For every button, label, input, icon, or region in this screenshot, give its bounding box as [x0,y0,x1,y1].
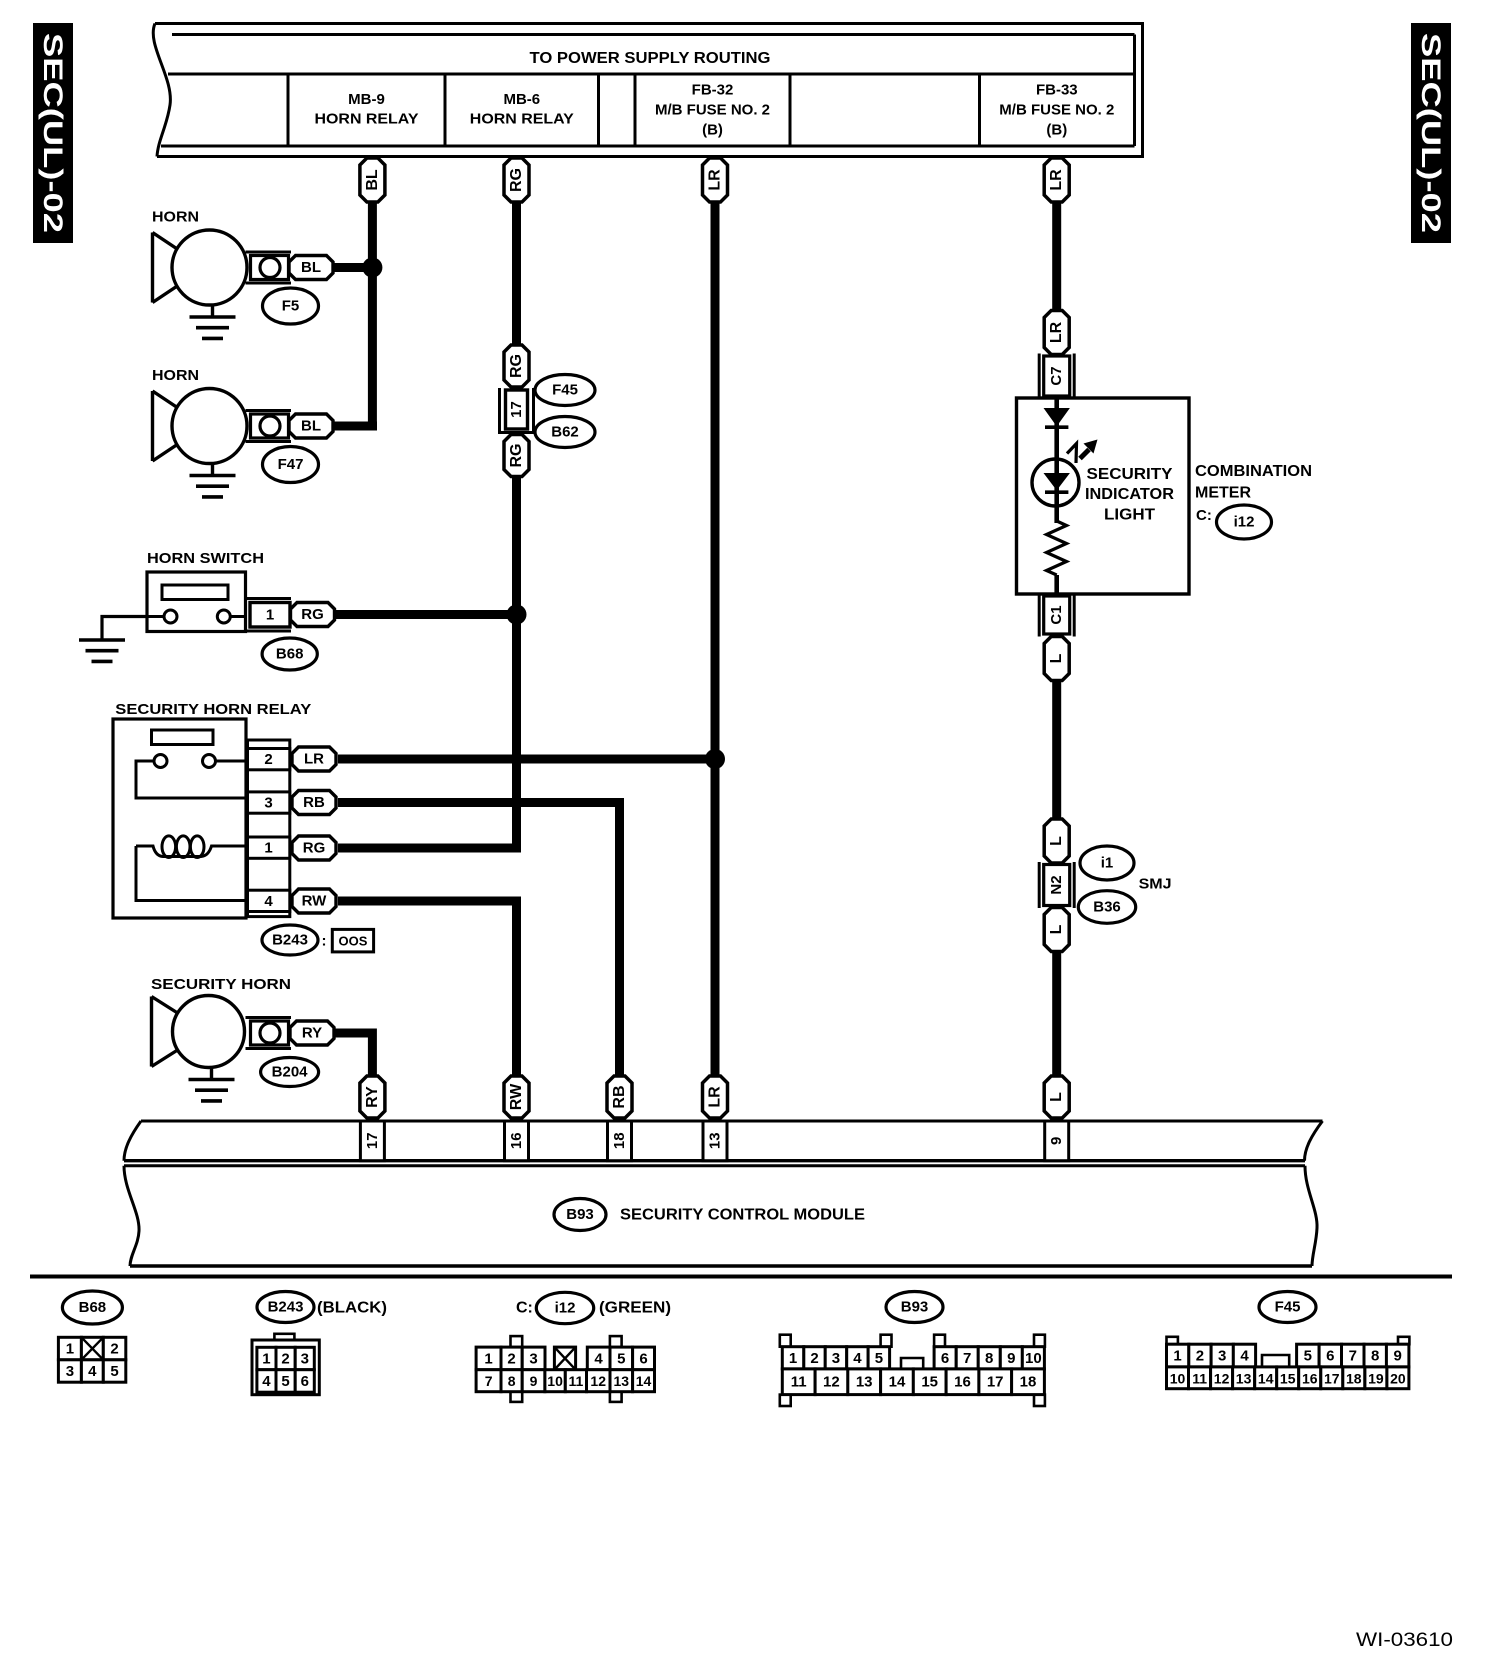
svg-text:4: 4 [853,1350,862,1367]
svg-text:17: 17 [987,1374,1004,1391]
svg-text:15: 15 [1280,1370,1296,1386]
tag RB at relay pin 3 [292,791,336,815]
svg-text:18: 18 [611,1132,628,1149]
security control module outline [124,1121,1323,1266]
svg-text:7: 7 [1349,1348,1357,1365]
module pin 9 [1045,1121,1069,1161]
svg-text:LR: LR [1048,169,1065,191]
svg-text:2: 2 [110,1341,118,1358]
svg-text:MB-6: MB-6 [503,91,540,108]
svg-text:C7: C7 [1048,366,1065,385]
wire BL horn2 to vertical [332,422,377,431]
label COMBINATION METER [1195,463,1312,502]
svg-text:RG: RG [303,840,326,857]
svg-text:8: 8 [508,1373,516,1389]
label SMJ [1139,876,1172,893]
svg-text:(GREEN): (GREEN) [599,1300,671,1317]
connector C1 [1039,594,1074,637]
svg-text:9: 9 [530,1373,538,1389]
horn lower symbol [153,389,248,497]
svg-text:4: 4 [1240,1348,1249,1365]
drawing number WI-03610 [1356,1630,1453,1651]
connector label F5 [263,288,319,324]
svg-text:9: 9 [1007,1350,1015,1367]
module pin 18 [608,1121,632,1161]
node LR junction [705,749,725,769]
connector label F47 [263,447,319,483]
svg-text:COMBINATION: COMBINATION [1195,463,1312,480]
svg-text:INDICATOR: INDICATOR [1085,486,1174,503]
svg-text:17: 17 [1324,1370,1340,1386]
svg-text:i12: i12 [555,1300,576,1317]
svg-text:SECURITY HORN RELAY: SECURITY HORN RELAY [115,701,311,718]
svg-text:L: L [1048,924,1065,934]
svg-text:LR: LR [707,1086,724,1108]
svg-text:HORN RELAY: HORN RELAY [470,111,574,128]
svg-text:M/B FUSE NO. 2: M/B FUSE NO. 2 [999,102,1114,119]
svg-text:LR: LR [304,751,324,768]
wire RW relay pin 4 to module pin 16 [338,901,517,1078]
svg-text:SEC(UL)-02: SEC(UL)-02 [38,33,68,233]
svg-text:7: 7 [963,1350,971,1367]
svg-text:B68: B68 [276,646,304,663]
svg-text:3: 3 [264,795,272,812]
wire L vertical (combination meter to L tag) [1052,678,1061,822]
module label B93 [554,1199,606,1231]
svg-text:i12: i12 [1234,514,1255,531]
connector B68 pinout grid [58,1337,125,1382]
svg-text:10: 10 [1170,1370,1186,1386]
svg-text:3: 3 [66,1363,74,1380]
svg-text:RY: RY [302,1025,322,1042]
connector B93 pinout grid [780,1335,1045,1406]
connector F45 pinout grid [1167,1337,1410,1389]
connector label B36 [1078,891,1135,924]
svg-text:F47: F47 [278,456,304,473]
svg-text:B62: B62 [551,424,579,441]
svg-text:4: 4 [262,1373,271,1390]
svg-text:13: 13 [614,1373,630,1389]
connector B243 pinout grid [252,1334,319,1395]
svg-text:13: 13 [707,1132,724,1149]
tag RY above module pin 17 [360,1076,385,1118]
tag BL at horn upper [289,256,333,280]
svg-text:18: 18 [1346,1370,1362,1386]
tag L above module pin 9 [1044,1076,1069,1118]
svg-text:4: 4 [264,893,273,910]
svg-text:2: 2 [1196,1348,1204,1365]
svg-text:14: 14 [889,1374,906,1391]
svg-text:17: 17 [364,1132,381,1149]
svg-text:SMJ: SMJ [1139,876,1172,893]
svg-text:BL: BL [364,169,381,191]
tag RW above module pin 16 [504,1076,529,1118]
horn upper symbol [153,230,248,338]
svg-text:16: 16 [1302,1370,1318,1386]
label SECURITY CONTROL MODULE [620,1207,865,1224]
tag RB above module pin 18 [607,1076,632,1118]
svg-text:B243: B243 [272,932,308,949]
svg-text:SECURITY HORN: SECURITY HORN [151,976,291,993]
svg-text:3: 3 [832,1350,840,1367]
svg-text:SEC(UL)-02: SEC(UL)-02 [1416,33,1446,233]
svg-text:HORN: HORN [152,209,199,226]
horn switch ground lead [79,617,147,662]
svg-text:5: 5 [875,1350,883,1367]
svg-text:8: 8 [985,1350,993,1367]
svg-text:14: 14 [1258,1370,1274,1386]
node RG junction at horn switch [507,605,527,625]
svg-text:RW: RW [302,893,328,910]
wire LR relay pin 2 to junction [338,755,715,764]
svg-text:B36: B36 [1093,899,1121,916]
svg-text:3: 3 [1218,1348,1226,1365]
combination meter box with security indicator light [1017,398,1190,594]
wire RG vertical lower (fuse to relay pin 1) [338,475,517,848]
svg-text:RG: RG [508,444,525,468]
module pin 13 [703,1121,727,1161]
svg-text:RG: RG [508,354,525,378]
svg-text:3: 3 [301,1351,309,1368]
svg-text:(B): (B) [1046,122,1067,139]
svg-text:METER: METER [1195,485,1251,502]
svg-text:1: 1 [66,1341,74,1358]
tag RG at relay pin 1 [292,836,336,860]
tag BL (MB-9 drop) [360,158,385,202]
svg-text:RG: RG [508,168,525,192]
right page label SEC(UL)-02 [1411,23,1451,243]
svg-text:FB-32: FB-32 [692,82,734,99]
svg-text:11: 11 [791,1374,807,1391]
svg-text::: : [322,933,327,950]
separator line [30,1275,1452,1279]
svg-text:1: 1 [264,840,272,857]
horn lower connector [246,411,292,442]
tag RW at relay pin 4 [292,889,336,913]
tag LR (FB-33 drop) [1044,158,1069,202]
tag L below combination meter [1044,637,1069,681]
connector label C: i12 (pinout) [516,1292,671,1323]
security horn connector [246,1018,292,1049]
svg-text:RW: RW [508,1083,525,1110]
fuse 17 with RG tags [500,345,534,477]
tag L above SMJ [1044,819,1069,863]
connector label B243 (pinout) [257,1292,387,1323]
svg-text:15: 15 [921,1374,938,1391]
svg-text:M/B FUSE NO. 2: M/B FUSE NO. 2 [655,102,770,119]
svg-text:1: 1 [1173,1348,1181,1365]
wire L vertical (SMJ to L tag) [1052,948,1061,1078]
svg-text:17: 17 [508,401,525,418]
svg-text:RB: RB [303,794,325,811]
svg-text:2: 2 [507,1350,515,1367]
svg-text:2: 2 [281,1351,289,1368]
tag RY at security horn [290,1021,334,1045]
svg-text:11: 11 [1192,1370,1207,1386]
svg-text:5: 5 [281,1373,289,1390]
svg-text:F45: F45 [552,382,578,399]
security horn relay box [113,719,248,918]
security horn symbol [152,996,245,1101]
node BL junction [362,258,382,278]
svg-text:12: 12 [590,1373,606,1389]
svg-text:RB: RB [611,1085,628,1108]
tag RG (MB-6 drop) [504,158,529,202]
svg-text:BL: BL [301,259,321,276]
svg-text:B243: B243 [268,1299,304,1316]
svg-text:5: 5 [110,1363,118,1380]
svg-text:5: 5 [617,1350,625,1367]
tag L below SMJ [1044,908,1069,952]
svg-text:13: 13 [1236,1370,1252,1386]
svg-text:BL: BL [301,418,321,435]
tag RG at horn switch [291,603,335,627]
svg-text:B93: B93 [901,1299,929,1316]
svg-text:LIGHT: LIGHT [1104,507,1155,524]
label HORN (lower) [152,367,199,384]
tag LR above module pin 13 [703,1076,728,1118]
connector label B204 [261,1058,319,1087]
svg-text:6: 6 [301,1373,309,1390]
svg-text:SECURITY CONTROL MODULE: SECURITY CONTROL MODULE [620,1207,865,1224]
connector label C: i12 [1196,505,1272,539]
svg-text:HORN SWITCH: HORN SWITCH [147,550,264,567]
svg-text:F5: F5 [282,298,300,315]
svg-text:12: 12 [1214,1370,1230,1386]
relay pin column [248,740,290,917]
tag LR (FB-32 drop) [703,158,728,202]
svg-text:7: 7 [485,1373,493,1389]
svg-text:8: 8 [1371,1348,1379,1365]
tag LR above combination meter [1044,311,1069,355]
connector label B68 (schematic) [262,638,317,670]
connector i12 pinout grid [476,1336,654,1402]
svg-text:11: 11 [568,1373,583,1389]
wire BL vertical from MB-9 drop [368,200,377,426]
svg-text:9: 9 [1048,1137,1065,1145]
svg-text:13: 13 [856,1374,873,1391]
svg-text:B204: B204 [272,1064,309,1081]
svg-text:4: 4 [88,1363,97,1380]
svg-text:B68: B68 [79,1299,107,1316]
svg-text:14: 14 [636,1373,652,1389]
svg-text:LR: LR [1048,321,1065,343]
wire L vertical (FB-33 drop to LR tag) [1052,200,1061,312]
tag LR at relay pin 2 [292,747,336,771]
svg-text:i1: i1 [1101,855,1114,872]
left page label SEC(UL)-02 [33,23,73,243]
svg-text:18: 18 [1020,1374,1037,1391]
svg-text:HORN: HORN [152,367,199,384]
connector label B93 (pinout) [886,1292,943,1323]
svg-text:16: 16 [508,1132,525,1149]
horn upper connector [246,252,292,283]
fuse label F45 [535,375,595,406]
svg-text:(BLACK): (BLACK) [317,1300,387,1317]
svg-text:1: 1 [262,1351,270,1368]
wire RY security horn to module pin 17 [334,1033,372,1078]
label HORN (upper) [152,209,199,226]
wire RB relay pin 3 to module pin 18 [338,803,620,1079]
svg-text:TO POWER SUPPLY ROUTING: TO POWER SUPPLY ROUTING [530,50,771,67]
svg-text:HORN RELAY: HORN RELAY [315,111,419,128]
svg-text:20: 20 [1390,1370,1406,1386]
connector label i1 [1080,846,1134,880]
svg-text:9: 9 [1394,1348,1402,1365]
wire RG horn switch to junction [332,610,517,619]
svg-text:19: 19 [1368,1370,1384,1386]
pin 1 of horn switch [250,603,290,628]
module pin 17 [360,1121,384,1161]
svg-text:6: 6 [941,1350,949,1367]
svg-text:12: 12 [823,1374,840,1391]
wire LR vertical (FB-32 drop to module pin 13) [711,200,720,1078]
svg-text:L: L [1048,653,1065,663]
svg-text:RY: RY [364,1086,381,1108]
svg-text:16: 16 [954,1374,971,1391]
svg-text:SECURITY: SECURITY [1087,466,1173,483]
svg-text:C:: C: [516,1300,533,1317]
wire RG vertical upper (MB-6 drop to fuse) [512,200,521,348]
connector N2 (SMJ) [1039,862,1074,908]
svg-text:RG: RG [301,606,324,623]
horn switch [147,550,264,632]
svg-text:5: 5 [1304,1348,1312,1365]
svg-text:10: 10 [547,1373,563,1389]
svg-text:FB-33: FB-33 [1036,82,1078,99]
svg-text:1: 1 [484,1350,492,1367]
svg-text:2: 2 [810,1350,818,1367]
svg-text:3: 3 [529,1350,537,1367]
horn switch pin bracket [246,599,292,632]
svg-text:6: 6 [1326,1348,1334,1365]
svg-text:F45: F45 [1275,1299,1301,1316]
svg-text:WI-03610: WI-03610 [1356,1630,1453,1651]
svg-text:2: 2 [264,751,272,768]
svg-text:1: 1 [266,607,274,624]
svg-text:4: 4 [594,1350,603,1367]
connector label F45 (pinout) [1259,1292,1316,1323]
tag BL at horn lower [289,414,333,438]
svg-text:6: 6 [639,1350,647,1367]
label SECURITY HORN RELAY [115,701,311,718]
svg-text:C:: C: [1196,507,1212,524]
svg-text:(B): (B) [702,122,723,139]
module pin 16 [505,1121,529,1161]
wire BL horn1 to junction [332,263,377,272]
svg-text:L: L [1048,836,1065,846]
connector C7 [1039,354,1074,399]
svg-text:MB-9: MB-9 [348,91,385,108]
power supply routing box [153,24,1142,157]
label SECURITY HORN [151,976,291,993]
svg-text:1: 1 [789,1350,797,1367]
svg-text:N2: N2 [1048,875,1065,894]
svg-text:C1: C1 [1048,605,1065,624]
connector label B243 with OOS [262,925,374,955]
svg-text:OOS: OOS [339,934,368,949]
svg-text:B93: B93 [566,1206,594,1223]
svg-text:L: L [1048,1092,1065,1102]
svg-text:LR: LR [707,169,724,191]
fuse label B62 [535,417,595,448]
connector label B68 (pinout) [62,1291,122,1324]
svg-text:10: 10 [1025,1350,1042,1367]
